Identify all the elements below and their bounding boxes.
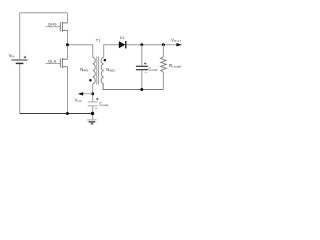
wire: QHS source to switch node	[67, 30, 69, 44]
transistor Q1 QHS	[60, 22, 67, 32]
wire: switch node to primary top	[68, 45, 93, 58]
svg-text:VIN: VIN	[9, 53, 15, 58]
resistor RL(oad)	[161, 57, 167, 73]
svg-text:COUT: COUT	[148, 66, 158, 71]
ground	[87, 120, 97, 124]
wire: QHS drain drop	[67, 13, 69, 23]
arrow Vms pointer	[78, 92, 83, 96]
transformer core	[97, 57, 99, 85]
wire: battery negative down	[19, 64, 21, 114]
wire: Cout bottom stem	[141, 70, 143, 89]
transformer T1 primary winding NPRI	[93, 57, 96, 84]
wire: output rail	[126, 44, 176, 46]
polarity dot primary	[89, 79, 92, 82]
wire: Cmag to ground rail	[92, 106, 94, 119]
svg-text:Cmag: Cmag	[99, 102, 108, 107]
wire: QLS source down to ground rail	[67, 67, 69, 114]
battery VIN source	[12, 56, 28, 64]
wire: Vms arrow tail	[83, 93, 93, 95]
node QLS source junction dot	[66, 112, 69, 115]
transistor Q2 QLS	[60, 58, 67, 68]
wire: RL top stem	[162, 45, 164, 57]
diode D1	[119, 41, 126, 48]
transformer T1 secondary winding NSEC	[101, 57, 104, 84]
wire: bottom ground rail	[20, 113, 93, 115]
svg-text:QHS: QHS	[48, 23, 57, 27]
wire: QHS gate lead	[46, 26, 61, 28]
svg-text:Vms: Vms	[75, 98, 82, 103]
wire: QLS drain from switch node	[67, 45, 69, 60]
svg-text:VOUT: VOUT	[171, 37, 181, 42]
svg-text:RL(oad): RL(oad)	[169, 63, 181, 68]
wire: left vertical from top rail to battery +	[19, 13, 21, 60]
node SW junction dot	[66, 43, 69, 46]
capacitor Cmag	[88, 98, 99, 109]
wire: QLS gate lead	[46, 62, 61, 64]
polarity dot secondary	[104, 59, 107, 62]
node ground junction dot	[91, 112, 94, 115]
svg-text:NPRI: NPRI	[80, 67, 88, 72]
svg-text:D1: D1	[120, 36, 125, 40]
wire: Cout top stem	[141, 45, 143, 66]
wire: top rail	[20, 12, 68, 14]
wire: RL bottom stem	[162, 72, 164, 89]
svg-text:NSEC: NSEC	[106, 67, 116, 72]
wire: secondary bottom rail	[103, 84, 163, 90]
node Cout junction dot	[140, 43, 143, 46]
capacitor Cout	[136, 62, 148, 72]
svg-text:T1: T1	[96, 38, 100, 42]
node Cout bottom junction dot	[140, 88, 143, 91]
arrow VOUT	[176, 43, 182, 47]
node RL junction dot	[162, 43, 165, 46]
node Vms junction dot	[91, 92, 94, 95]
wire: primary bottom lead to Cmag	[92, 84, 94, 102]
wire: secondary top lead to diode	[104, 45, 119, 58]
svg-text:QLS: QLS	[48, 60, 57, 64]
